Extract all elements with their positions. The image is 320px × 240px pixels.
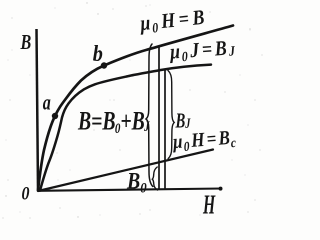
B axis (vertical)	[37, 29, 39, 191]
label a	[43, 91, 51, 115]
svg-text:a: a	[43, 91, 51, 115]
label mu0 H = Bc	[171, 126, 238, 155]
big left brace for B = B0 + BJ	[146, 44, 153, 187]
scan speckle noise	[2, 2, 262, 218]
svg-text:0: 0	[22, 182, 30, 204]
label mu0 J = BJ	[168, 37, 238, 66]
curve mu0 J = BJ (saturating magnetization component)	[40, 65, 211, 191]
paper background	[0, 0, 275, 222]
label 0 (origin)	[22, 182, 30, 204]
H axis (horizontal)	[38, 189, 223, 191]
label b	[93, 41, 103, 66]
label B = B0 + BJ	[77, 106, 150, 137]
svg-text:B=B0+BJ: B=B0+BJ	[77, 106, 150, 137]
label mu0 H = B (top line)	[138, 6, 209, 37]
right brace for BJ	[168, 71, 174, 159]
curve B = B0 + BJ (main magnetization curve through a and b)	[38, 26, 233, 191]
point b (dot on B curve)	[101, 62, 107, 68]
point a (dot on B curve)	[52, 113, 58, 119]
label BJ (right of brace)	[175, 109, 191, 132]
straight line mu0 H = Bc from origin	[38, 150, 213, 192]
H axis end dot	[219, 187, 223, 191]
label H (horizontal axis)	[202, 189, 215, 220]
label B0 (bottom)	[126, 168, 147, 197]
vertical line at H1 to B curve	[158, 46, 160, 189]
svg-text:H: H	[202, 189, 215, 220]
svg-text:B: B	[20, 31, 32, 55]
vertical line at H1 to mu0J curve	[164, 69, 166, 189]
svg-text:b: b	[93, 41, 103, 66]
small brace for B0	[152, 167, 157, 190]
label B (vertical axis)	[20, 31, 32, 55]
